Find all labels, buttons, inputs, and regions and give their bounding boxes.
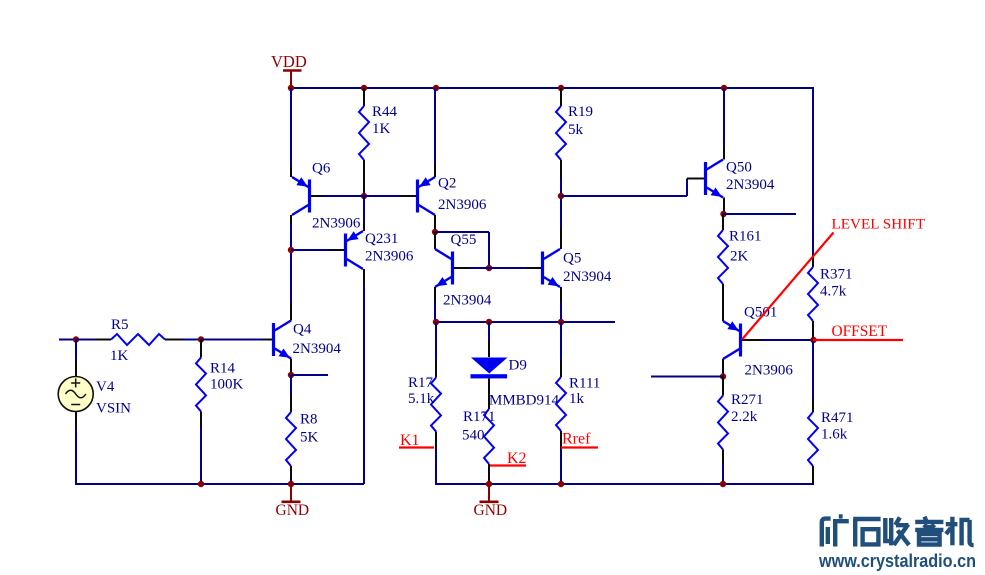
pin Q55 base lead [454,267,470,269]
svg-text:Q5: Q5 [563,250,581,266]
annotation line LEVEL SHIFT [742,233,834,340]
pin Q2 base lead [400,195,416,197]
pin Q501 base lead [742,339,762,341]
svg-text:R44: R44 [372,104,398,120]
pin Q4 collector lead [290,302,292,321]
wire OFFSET node to R471 [812,340,814,398]
wire Q501 base to OFFSET node [762,339,813,341]
ground GND left [276,484,310,519]
svg-text:GND: GND [474,502,508,519]
pin R471 bottom lead [812,466,814,484]
power symbol VDD [271,52,307,88]
watermark logo (crystalradio) [822,516,974,546]
svg-text:R19: R19 [568,104,593,120]
transistor Q501 2N3906 [723,321,742,359]
svg-text:2N3904: 2N3904 [563,269,612,285]
svg-text:4.7k: 4.7k [820,283,847,299]
wire R271 to ground rail [722,463,724,484]
wire Q50 collector from VDD [723,88,725,146]
junction VDD / Q6 [288,85,294,91]
pin R161 top lead [722,214,724,230]
resistor R44 [359,106,369,160]
net label OFFSET [813,323,903,340]
pin Q50 emitter lead [723,198,725,215]
wire ground rail left [75,483,364,485]
svg-text:1K: 1K [372,121,391,137]
svg-text:R111: R111 [569,375,600,391]
pin R161 bottom lead / Q501 emitter [722,284,724,321]
pin R371 bottom lead [812,321,814,340]
pin Q231 emitter lead [363,221,365,231]
junction Q6 collector / Q231 base [288,247,294,253]
resistor R471 [808,412,818,466]
pin Q6 base lead [311,195,324,197]
net label K2 [490,450,527,467]
svg-text:Q55: Q55 [451,232,477,248]
svg-text:Q6: Q6 [312,160,331,176]
svg-text:R161: R161 [729,228,762,244]
svg-text:OFFSET: OFFSET [832,323,888,340]
wire R8 to ground rail [290,479,292,484]
junction R111 / ground rail [558,481,564,487]
svg-text:VDD: VDD [271,52,307,71]
pin Q5 collector lead [560,228,562,249]
junction R44 / rail [361,85,367,91]
wire node to Q50 base run [561,195,687,197]
svg-text:2N3906: 2N3906 [438,197,487,213]
resistor R8 [286,412,296,466]
pin R371 top lead [812,254,814,267]
pin R271 bottom lead [722,450,724,464]
junction Q2 / rail [433,85,439,91]
svg-text:100K: 100K [210,376,244,392]
svg-text:VSIN: VSIN [96,400,131,416]
pin Q2 collector lead [434,215,436,232]
transistor Q2 2N3906 [416,177,435,215]
wire Q231 emitter [363,196,365,221]
resistor R111 [556,377,566,431]
junction R271 / ground rail [720,481,726,487]
pin R44 top lead [363,88,365,106]
junction R8 / ground rail [288,481,294,487]
resistor R161 [718,230,728,284]
wire emitter row y322 [436,321,615,323]
wire R5 to R14 [183,339,201,341]
junction R171 / ground rail [486,481,492,487]
junction R14 / Q4 base [198,336,204,342]
pin R17 top lead [435,360,437,378]
svg-text:2K: 2K [730,248,749,264]
pin Q231 collector lead [363,269,365,284]
svg-text:Q2: Q2 [438,175,456,191]
resistor R17 [431,378,441,432]
pin R471 top lead [812,398,814,412]
svg-text:540: 540 [462,427,485,443]
pin Q55 collector lead [434,232,436,249]
resistor R14 [196,358,206,412]
wire Q231 base [291,249,330,251]
transistor Q5 2N3904 [541,249,560,287]
pin Q5 base lead [526,267,541,269]
pin R14 top lead [200,340,202,358]
svg-text:GND: GND [276,502,310,519]
wire Q5 emitter down [560,302,562,322]
svg-text:Rref: Rref [562,431,591,448]
junction Q50 / rail [721,85,727,91]
junction R19 / Q5 collector / Q50 base [558,193,564,199]
wire Q2 collector to mirror [435,231,489,233]
svg-text:2N3904: 2N3904 [726,177,775,193]
resistor R271 [718,396,728,450]
svg-text:R5: R5 [111,317,129,333]
wire Q5 collector up [560,196,562,228]
junction R44 / bias node [361,193,367,199]
junction Q5 emitter / R111 [558,319,564,325]
junction R19 / rail [558,85,564,91]
svg-text:2.2k: 2.2k [731,409,758,425]
wire R14 to ground rail [200,427,202,484]
transistor Q50 2N3904 [704,160,723,198]
junction V4 / R5 [73,336,79,342]
wire R111 top [560,322,562,360]
pin R171 bottom lead [488,464,490,484]
wire to Q4 base [201,339,262,341]
resistor R371 [808,267,818,321]
wire Q231 collector to ground rail [363,284,365,484]
svg-text:R471: R471 [821,410,854,426]
svg-text:V4: V4 [96,379,115,395]
pin Q2 emitter lead [434,164,436,177]
pin R44 bottom lead [363,160,365,196]
junction Q501 collector node [720,373,726,379]
voltage source V4 VSIN [58,377,93,412]
wire Q2 emitter from VDD [434,88,436,164]
pin R8 bottom lead [290,466,292,479]
pin R19 top lead [560,88,562,106]
wire Q6 collector to Q4 collector [290,224,292,302]
wire VDD top rail [290,87,814,89]
pin Q4 emitter lead [290,359,292,376]
wire Q55 emitter down [434,301,436,322]
pin Q4 base lead [262,339,272,341]
ground GND right [474,484,508,519]
wire V4 to R5 [76,339,95,341]
net label Rref [561,431,598,448]
pin Q50 base lead [687,178,704,180]
svg-text:R17: R17 [408,375,434,391]
wire node to Q5 base [489,267,526,269]
resistor R19 [556,106,566,160]
wire Q4 emitter stub [291,374,328,376]
resistor R171 [484,409,494,464]
pin R5 right lead [165,339,183,341]
wire R17 to ground rail [435,449,437,484]
transistor Q231 2N3906 [344,231,363,269]
net label K1 [399,432,434,449]
wire input stub [59,339,76,341]
svg-text:R8: R8 [300,411,318,427]
wire R111 to ground rail [560,449,562,484]
wire bias node y196 [324,195,400,197]
pin R111 bottom lead [560,431,562,449]
svg-text:2N3904: 2N3904 [293,341,342,357]
pin R14 bottom lead [200,412,202,428]
pin R17 bottom lead [435,432,437,450]
svg-text:Q4: Q4 [293,321,312,337]
wire Q50 emitter stub [724,213,796,215]
pin V4 plus lead [75,360,77,377]
junction D9 top [486,319,492,325]
svg-text:R371: R371 [820,266,853,282]
wire Q501 collector stub [651,376,723,378]
pin R8 top lead [290,394,292,412]
resistor R5 [111,334,165,345]
wire down to mirror base node [488,232,490,268]
junction mirror base node [486,265,492,271]
svg-text:R271: R271 [731,392,764,408]
pin Q231 base lead [330,249,344,251]
svg-text:R171: R171 [463,409,496,425]
pin V4 minus lead [75,412,77,429]
pin D9 cathode / R171 top lead [488,379,490,410]
diode D9 MMBD914 [471,358,508,379]
wire D9 top [488,322,490,341]
svg-text:5K: 5K [300,429,319,445]
pin Q501 collector lead [722,359,724,377]
wire R17 top [435,322,437,360]
pin Q55 emitter lead [434,287,436,301]
pin D9 anode lead [488,341,490,357]
wire Q50 base step up [686,179,688,197]
wire R19 to node [560,178,562,196]
pin R5 left lead [95,339,111,341]
svg-text:2N3906: 2N3906 [365,248,414,264]
svg-text:5.1k: 5.1k [408,391,435,407]
junction R14 / ground rail [198,481,204,487]
svg-text:1k: 1k [569,391,585,407]
pin Q50 collector lead [723,146,725,160]
wire V4 top [75,340,77,361]
pin R111 top lead [560,360,562,377]
pin R19 bottom lead [560,160,562,178]
svg-text:2N3904: 2N3904 [443,293,492,309]
svg-text:2N3906: 2N3906 [312,215,361,231]
pin Q6 emitter lead [290,166,292,177]
svg-text:MMBD914: MMBD914 [489,392,560,408]
wire ground rail right [435,483,814,485]
junction OFFSET node [810,337,816,343]
svg-text:Q50: Q50 [726,159,752,175]
svg-text:1K: 1K [110,348,129,364]
wire Q4 emitter to R8 [290,375,292,394]
pin Q5 emitter lead [560,287,562,302]
svg-text:5k: 5k [568,122,584,138]
wire Q55 base to node [470,267,489,269]
pin R271 top lead [722,377,724,396]
transistor Q4 2N3904 [272,321,291,359]
junction Q4 emitter node [288,372,294,378]
junction Q2 collector / Q55 [432,229,438,235]
wire Q6 emitter from VDD [290,88,292,166]
wire right column from rail to R371 [812,88,814,254]
svg-text:D9: D9 [509,357,527,373]
svg-text:LEVEL SHIFT: LEVEL SHIFT [832,216,926,233]
svg-text:Q231: Q231 [365,231,398,247]
pin Q6 collector lead [290,215,292,224]
wire V4 to ground rail [75,428,77,484]
junction Q55 emitter / R17 [433,319,439,325]
svg-text:1.6k: 1.6k [821,426,848,442]
svg-text:2N3906: 2N3906 [745,362,794,378]
junction Q50 emitter / R161 [720,211,726,217]
svg-text:www.crystalradio.cn: www.crystalradio.cn [818,551,976,571]
transistor Q55 2N3904 [435,249,454,287]
svg-text:R14: R14 [210,360,236,376]
transistor Q6 2N3906 [292,177,311,215]
